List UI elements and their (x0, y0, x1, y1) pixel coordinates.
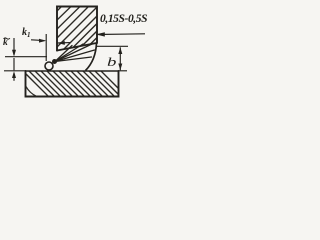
weld root circle (45, 62, 53, 70)
hatching of vertical plate (56, 6, 98, 51)
weld face (86, 43, 97, 71)
K1 extension line (45, 34, 47, 61)
paper background (0, 0, 149, 109)
dimension: b (right) (97, 45, 129, 47)
weld fan lines (55, 44, 95, 62)
svg-text:b: b (107, 55, 116, 69)
bottom plate outline (26, 71, 119, 97)
curved hatch stroke in plate corner (26, 87, 37, 97)
vertical plate outline (57, 7, 97, 51)
weld knot (52, 59, 57, 64)
bottom plate top edge with extensions (4, 70, 26, 72)
hatching of bottom plate (20, 68, 130, 100)
svg-text:k: k (3, 38, 8, 48)
K1 right arrow (points left at plate edge) (58, 42, 71, 44)
svg-text:0,15S-0,5S: 0,15S-0,5S (100, 13, 148, 25)
